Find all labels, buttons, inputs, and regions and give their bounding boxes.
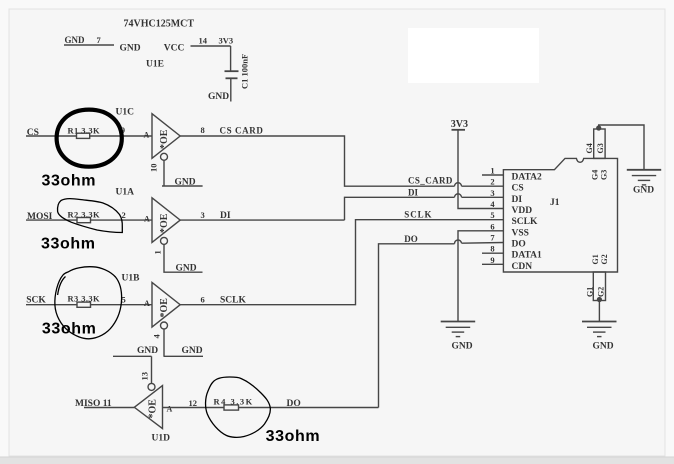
svg-text:DO: DO (287, 399, 301, 409)
svg-text:3V3: 3V3 (219, 36, 234, 46)
wire pin13 U1D OE (151, 356, 153, 383)
svg-text:U1A: U1A (116, 188, 135, 198)
wire tab to GND (bottom) (598, 301, 600, 322)
svg-text:3V3: 3V3 (451, 119, 468, 130)
wire SCLK net (180, 220, 503, 305)
svg-text:DI: DI (408, 188, 418, 198)
junction dot (596, 125, 601, 130)
svg-text:SCLK: SCLK (512, 217, 538, 227)
annotation circle R1 (57, 110, 122, 167)
svg-text:G4: G4 (591, 170, 600, 180)
svg-text:8: 8 (490, 244, 494, 254)
capacitor C1 (225, 71, 239, 78)
connector J1 pin stubs (482, 175, 503, 264)
G1/G2 tab box (bottom) (593, 272, 605, 301)
svg-text:R3 3.3K: R3 3.3K (68, 294, 101, 304)
resistor R4 (224, 405, 239, 410)
svg-text:GND: GND (208, 92, 229, 102)
connector J1 outline (503, 158, 617, 272)
svg-text:R2 3.3K: R2 3.3K (68, 210, 101, 220)
svg-text:2: 2 (122, 210, 126, 220)
svg-text:33ohm: 33ohm (42, 321, 97, 338)
svg-text:U1D: U1D (152, 434, 171, 444)
svg-text:CDN: CDN (512, 262, 533, 272)
svg-text:CS CARD: CS CARD (220, 126, 264, 136)
svg-text:VSS: VSS (512, 228, 529, 238)
resistor R3 (77, 302, 91, 307)
svg-text:GND: GND (182, 346, 203, 356)
wire VSS pin 6 to GND (458, 231, 503, 321)
svg-text:12: 12 (189, 398, 198, 408)
buffer U1D (134, 386, 162, 429)
wire DI net (180, 197, 503, 220)
wire CS CARD net (180, 136, 503, 186)
GND pin 7 wire (64, 44, 114, 46)
svg-text:G1: G1 (586, 287, 595, 297)
svg-text:GND: GND (176, 264, 197, 274)
buffer U1C (152, 114, 180, 159)
svg-text:CS: CS (512, 184, 524, 194)
svg-text:A: A (144, 299, 150, 308)
resistor R2 (77, 218, 91, 223)
wire 3V3 to VDD pin 4 (458, 130, 503, 209)
resistor R1 (77, 133, 90, 138)
svg-text:DI: DI (512, 195, 523, 205)
svg-text:DATA2: DATA2 (512, 173, 543, 183)
junction dot (bottom tab) (597, 297, 602, 302)
pin names (J1) (512, 173, 543, 272)
wire OE U1A to GND (164, 244, 203, 272)
svg-text:G2: G2 (600, 254, 609, 264)
buffer U1B (152, 282, 180, 327)
svg-text:5: 5 (490, 210, 494, 220)
wire CS input (26, 135, 152, 137)
svg-text:VCC: VCC (164, 44, 185, 54)
svg-text:GND: GND (593, 342, 614, 352)
svg-text:G1: G1 (591, 254, 600, 264)
svg-text:G4: G4 (585, 143, 594, 153)
G4/G3 tab box (top) (594, 129, 605, 158)
pin names G4 G3 (inside J1 top) (591, 170, 609, 180)
OE bubble U1B (161, 322, 168, 329)
OE bubble U1C (161, 153, 168, 160)
svg-text:GND: GND (633, 186, 654, 196)
svg-text:10: 10 (149, 164, 159, 173)
wire OE U1B to GND (163, 329, 165, 357)
svg-text:U1C: U1C (116, 108, 135, 118)
svg-text:2: 2 (490, 177, 494, 187)
svg-text:14: 14 (199, 36, 208, 46)
svg-text:6: 6 (201, 295, 205, 305)
svg-text:DATA1: DATA1 (512, 251, 543, 261)
wire SCK input (26, 304, 152, 306)
svg-text:*OE: *OE (159, 298, 170, 318)
OE bubble U1D (148, 383, 155, 390)
svg-text:*OE: *OE (148, 399, 159, 419)
wire VCC to C1 (230, 46, 232, 71)
wire MOSI input (26, 219, 152, 221)
svg-text:GND: GND (137, 346, 158, 356)
svg-text:U1B: U1B (122, 274, 141, 284)
svg-text:GND: GND (452, 342, 473, 352)
ground (under J1 left) (441, 322, 476, 337)
VCC pin 14 wire (191, 45, 231, 47)
pin numbers 1-9 (J1) (490, 166, 495, 266)
ground (under J1 right) (582, 322, 617, 337)
svg-text:A: A (144, 215, 150, 224)
svg-text:*OE: *OE (159, 213, 170, 233)
svg-text:33ohm: 33ohm (41, 236, 96, 253)
svg-text:3: 3 (490, 188, 494, 198)
svg-text:A: A (144, 131, 150, 140)
annotation circle R4 (206, 377, 271, 437)
svg-text:GND: GND (65, 35, 86, 45)
svg-text:U1E: U1E (146, 60, 164, 70)
svg-text:1: 1 (153, 250, 163, 254)
svg-text:8: 8 (201, 125, 205, 135)
wire hop CS_CARD over 3V3 (455, 183, 462, 187)
svg-text:R1 3.3K: R1 3.3K (68, 126, 101, 136)
buffer U1A (152, 198, 180, 243)
wire MISO input (84, 407, 134, 409)
svg-text:R4 3.3K: R4 3.3K (214, 397, 254, 407)
svg-text:1: 1 (490, 166, 494, 176)
svg-text:*OE: *OE (159, 129, 170, 149)
svg-text:GND: GND (175, 178, 196, 188)
svg-text:9: 9 (490, 255, 494, 265)
ground (top right) (627, 170, 661, 185)
OE bubble U1A (161, 237, 168, 244)
svg-text:VDD: VDD (512, 206, 533, 216)
svg-text:33ohm: 33ohm (266, 428, 321, 445)
annotation circle R2 (58, 199, 123, 233)
wire C1 to GND (230, 78, 232, 101)
wire U1D to R4 (162, 407, 378, 409)
svg-text:3: 3 (201, 210, 205, 220)
svg-text:C1 100nF: C1 100nF (240, 54, 250, 89)
wire tab to GND (top right) (599, 125, 644, 170)
svg-text:33ohm: 33ohm (42, 173, 97, 190)
wire OE U1C to GND (162, 160, 203, 186)
svg-text:J1: J1 (550, 198, 560, 208)
wire hop DI over 3V3 (455, 194, 462, 197)
pin names G1 G2 (inside J1 bottom) (591, 254, 609, 264)
svg-text:13: 13 (140, 372, 150, 381)
svg-text:6: 6 (490, 221, 494, 231)
svg-text:CS_CARD: CS_CARD (408, 176, 453, 186)
svg-text:SCLK: SCLK (404, 210, 432, 220)
svg-text:G2: G2 (597, 287, 606, 297)
svg-text:G3: G3 (600, 170, 609, 180)
wire DO net (379, 243, 504, 408)
annotation circle R3 (55, 267, 122, 339)
svg-text:G3: G3 (596, 143, 605, 153)
svg-text:GND: GND (120, 44, 141, 54)
svg-text:DO: DO (404, 234, 418, 244)
GND stub wire (U1B / U1D OE) (113, 355, 152, 357)
svg-text:74VHC125MCT: 74VHC125MCT (124, 19, 195, 30)
svg-text:DO: DO (512, 240, 526, 250)
svg-text:A: A (167, 405, 173, 414)
wire hop DO over VSS (454, 240, 461, 244)
